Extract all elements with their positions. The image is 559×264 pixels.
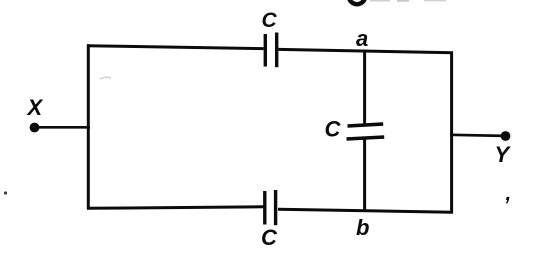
- svg-text:Y: Y: [495, 142, 512, 167]
- wire right vertical rail: [450, 52, 453, 214]
- wire top rail left segment: [87, 46, 264, 49]
- svg-text:C: C: [262, 9, 278, 32]
- wire from right rail to terminal Y: [450, 135, 504, 136]
- terminal Y: [501, 131, 511, 141]
- node b: [356, 215, 369, 240]
- wire left vertical rail: [87, 44, 90, 209]
- value label C (top capacitor): [262, 9, 278, 32]
- svg-text:C: C: [261, 225, 278, 250]
- svg-text:X: X: [26, 95, 44, 120]
- capacitor C3 (bottom) plates: [265, 190, 276, 225]
- capacitor C2 (middle) plates: [347, 124, 385, 139]
- label X: [26, 95, 44, 120]
- label Y: [495, 142, 512, 167]
- svg-text:,: ,: [505, 182, 512, 205]
- wire middle branch upper segment (node a to C2): [363, 51, 366, 124]
- cropped text fragment (bottom of letter g above crop): [349, 0, 365, 4]
- svg-text:C: C: [325, 116, 342, 141]
- capacitor C1 (top) plates: [265, 33, 276, 68]
- node a: [356, 26, 368, 51]
- terminal X: [30, 123, 40, 133]
- wire top rail right segment: [278, 49, 453, 52]
- svg-text:a: a: [356, 26, 368, 51]
- wire bottom rail left segment: [87, 207, 264, 209]
- wire middle branch lower segment (C2 to node b): [363, 140, 366, 212]
- wire bottom rail right segment: [278, 209, 453, 212]
- wire from terminal X to left rail: [35, 126, 90, 129]
- value label C (bottom capacitor): [261, 225, 278, 250]
- svg-text:b: b: [356, 215, 369, 240]
- scan artifacts (unlabelled, placed first): [4, 0, 511, 205]
- value label C (middle capacitor): [325, 116, 342, 141]
